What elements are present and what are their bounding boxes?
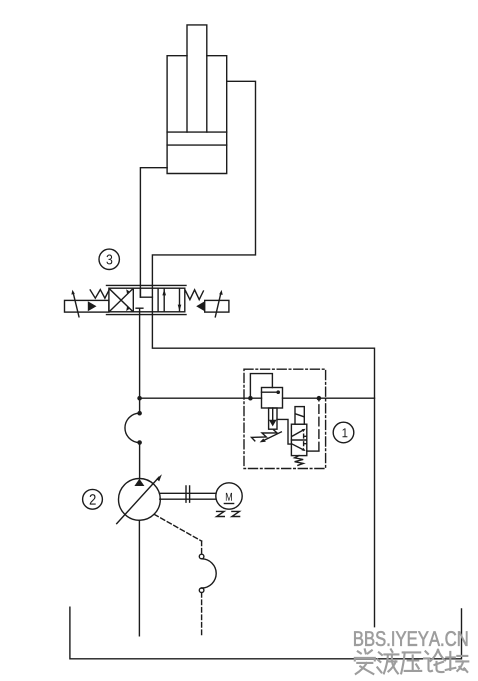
valve V3 cell dividers: [133, 288, 158, 312]
relief valve adjustable spring: [252, 430, 278, 441]
drain line dashed vertical upper: [201, 541, 203, 554]
wire: valve T to tank return: [152, 315, 374, 627]
hose on pump outlet: arc: [125, 413, 140, 442]
label circle 2: [83, 489, 103, 509]
valve V3 overline: [107, 284, 187, 286]
motor phase marks: [217, 511, 225, 516]
valve V3 left solenoid stroke arrow: [73, 293, 79, 316]
pilot valve upper cell blocked port: [304, 434, 307, 438]
valve V3 right solenoid triangle: [196, 301, 205, 311]
relief valve enclosure (dash-dot box): [244, 369, 326, 468]
valve V3 left spring: [90, 290, 109, 299]
valve V3 center cell P blocked bar: [136, 307, 143, 309]
valve V3 center cell A stub: [139, 288, 141, 297]
cylinder body: [167, 56, 227, 174]
pilot solenoid actuator slash: [295, 414, 304, 417]
valve V3 center cell through line B-T: [151, 285, 153, 314]
drain line dashed vertical lower: [201, 593, 203, 637]
wire: cylinder rod-side port to valve B: [152, 81, 255, 285]
cylinder rod: [187, 25, 207, 132]
pilot valve spring: [295, 456, 304, 466]
relief valve poppet triangle: [269, 420, 277, 427]
junction: pilot loop on main line: [248, 396, 253, 401]
shaft coupling ticks: [186, 486, 190, 502]
relief valve pilot loop line: [250, 374, 272, 399]
wire: cylinder cap-side port to valve A: [140, 168, 167, 298]
relief valve poppet section: [269, 408, 277, 429]
watermark line 1: [354, 631, 467, 646]
main pressure line to relief valve: [140, 397, 375, 399]
tank: [70, 607, 462, 659]
valve V3 right spring: [185, 290, 203, 300]
drain hose circles: [199, 554, 204, 559]
junction: vent on main line: [317, 396, 322, 401]
junction: pump line to relief branch: [137, 396, 142, 401]
valve V3 main body: [109, 288, 185, 312]
wire: pump to valve P: [139, 309, 141, 398]
drain line dashed diagonal: [154, 514, 201, 541]
pilot solenoid valve body: [291, 424, 306, 455]
pilot valve upper cell arrow: [293, 430, 304, 436]
label circle 1: [333, 422, 354, 443]
relief valve RV1 main body: [262, 388, 283, 409]
wire: hose to pump outlet: [139, 443, 141, 479]
relief valve adjustment arrow: [264, 432, 281, 440]
pump P1 circle: [118, 479, 160, 521]
hose on pump outlet: node dots: [137, 411, 142, 416]
valve V3 left solenoid box: [65, 300, 109, 312]
vent line from pilot valve: [307, 450, 319, 452]
valve V3 right solenoid box: [205, 300, 229, 312]
valve V3 underline: [107, 314, 187, 316]
drive shaft: [160, 493, 216, 499]
vent dashed line to main line: [318, 398, 320, 451]
cylinder piston: [167, 132, 227, 145]
pump suction line: [138, 520, 140, 636]
label circle 3: [99, 249, 119, 269]
valve V3 right solenoid stroke arrow: [215, 293, 221, 317]
watermark line 2 (CJK drawn strokes): [355, 649, 469, 674]
motor M label: [226, 493, 232, 501]
wire: valve P junction down to hose: [139, 398, 141, 413]
valve V3 right cell parallel arrows: [164, 288, 179, 311]
pilot solenoid actuator box: [295, 407, 304, 425]
valve V3 left cell crossed arrows: [109, 289, 132, 312]
pilot valve lower cell blocked port: [304, 442, 307, 446]
relief valve internal flow line with node: [262, 391, 278, 393]
pump flow triangle: [134, 479, 144, 486]
pilot valve lower cell arrow: [293, 444, 304, 450]
motor M1 circle: [216, 483, 242, 509]
valve V3 left solenoid triangle: [88, 301, 97, 311]
drain hose arc: [202, 559, 217, 588]
pump variable displacement arrow: [117, 477, 159, 523]
pilot connection: relief to solenoid valve: [277, 419, 291, 444]
